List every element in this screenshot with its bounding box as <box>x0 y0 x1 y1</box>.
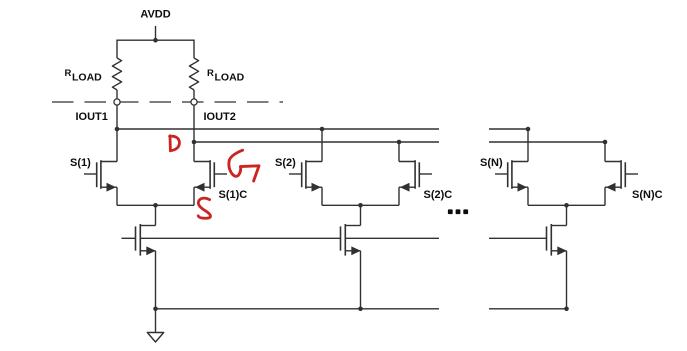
wire R1 bottom lead <box>116 90 118 99</box>
junction bus2 cell2 <box>397 140 402 145</box>
wire M1a source down <box>116 187 118 205</box>
junction bus2 cell1 <box>192 140 197 145</box>
junction rail cell1 <box>153 307 158 312</box>
resistor R_LOAD left <box>112 58 121 90</box>
wire IOUT1 to M1a drain <box>116 105 118 162</box>
red annotation D (drain) <box>170 136 180 151</box>
svg-text:S(2)C: S(2)C <box>424 189 453 201</box>
wire current-source gate bias (segment 2) <box>345 237 439 239</box>
junction bus1 cell1 <box>115 127 120 132</box>
wire R1 top lead <box>116 40 118 59</box>
svg-text:S(N)C: S(N)C <box>632 189 663 201</box>
wire M2a source down <box>321 187 323 205</box>
transistor MNc current source <box>547 205 567 308</box>
svg-text:AVDD: AVDD <box>140 9 170 21</box>
wire IOUT2 to M1b drain <box>193 105 195 162</box>
node IOUT1 terminal circle <box>114 99 120 105</box>
wire bus2 to MNb drain <box>604 142 606 162</box>
resistor R_LOAD right <box>189 58 198 90</box>
svg-text:LOAD: LOAD <box>72 72 102 84</box>
wire R2 bottom lead <box>193 90 195 99</box>
wire M2b source down <box>398 187 400 205</box>
junction tail node cell2 <box>358 203 363 208</box>
ground symbol <box>147 309 163 342</box>
wire R2 top lead <box>193 40 195 59</box>
wire AVDD stub <box>155 26 157 40</box>
svg-text:IOUT2: IOUT2 <box>204 111 236 123</box>
wire IOUT2 bus (right segment) <box>489 141 605 143</box>
wire MNa source down <box>527 187 529 205</box>
svg-text:S(N): S(N) <box>480 157 503 169</box>
svg-text:S(1): S(1) <box>70 157 91 169</box>
wire current-source gate bias (segment 1) <box>140 237 340 239</box>
svg-text:R: R <box>65 68 72 79</box>
junction tail node cell1 <box>153 203 158 208</box>
wire M1c gate lead stub <box>122 237 136 239</box>
wire bus1 to MNa drain <box>527 129 529 162</box>
red annotation G (gate squiggle) <box>229 150 259 181</box>
wire tail cellN <box>528 204 605 206</box>
svg-text:S(1)C: S(1)C <box>219 189 248 201</box>
wire bottom rail (left segment) <box>156 308 440 310</box>
transistor M1c current source <box>136 205 156 308</box>
svg-text:R: R <box>207 68 214 79</box>
wire IOUT1 bus (right segment) <box>489 128 528 130</box>
junction rail cell2 <box>358 307 363 312</box>
dashed boundary line <box>52 101 283 103</box>
junction rail cellN <box>564 307 569 312</box>
transistor MNa S(N) switch <box>495 160 528 191</box>
transistor MNb S(N)C switch <box>605 160 638 191</box>
transistor M2c current source <box>341 205 361 308</box>
wire bus2 to M2b drain <box>398 142 400 162</box>
label R_LOAD right <box>207 68 245 84</box>
wire IOUT1 bus (left segment) <box>117 128 439 130</box>
svg-text:IOUT1: IOUT1 <box>76 111 108 123</box>
transistor M2a S(2) switch <box>289 160 322 191</box>
junction tail node cellN <box>564 203 569 208</box>
node IOUT2 terminal circle <box>191 99 197 105</box>
transistor M1b S(1)C switch <box>194 160 227 191</box>
ellipsis continuation dots <box>448 209 468 214</box>
red annotation S (source) <box>198 198 210 218</box>
svg-text:S(2): S(2) <box>275 157 296 169</box>
junction bus1 cellN <box>526 127 531 132</box>
wire IOUT2 bus (left segment) <box>194 141 439 143</box>
junction AVDD node <box>153 38 158 43</box>
svg-text:LOAD: LOAD <box>215 72 245 84</box>
transistor M1a S(1) switch <box>84 160 117 191</box>
wire current-source gate bias (right segment) <box>489 237 547 239</box>
junction bus1 cell2 <box>320 127 325 132</box>
wire M1b source down <box>193 187 195 205</box>
wire bus1 to M2a drain <box>321 129 323 162</box>
label R_LOAD left <box>65 68 103 84</box>
wire bottom rail (right segment) <box>489 308 567 310</box>
transistor M2b S(2)C switch <box>399 160 432 191</box>
wire tail cell1 <box>117 204 194 206</box>
wire MNb source down <box>604 187 606 205</box>
wire top rail <box>117 39 194 41</box>
wire tail cell2 <box>322 204 399 206</box>
junction bus2 cellN <box>603 140 608 145</box>
